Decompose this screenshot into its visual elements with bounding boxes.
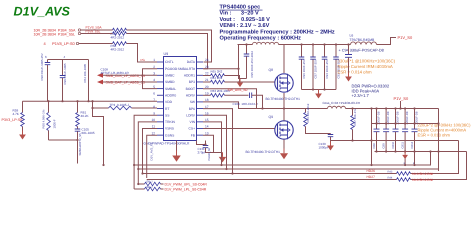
svg-text:TP3 0-1005-J: TP3 0-1005-J — [110, 103, 130, 107]
svg-text:BOOT: BOOT — [186, 87, 195, 91]
wire aux x103 — [93, 108, 104, 165]
svg-text:VENH : 2.1V ~ 3.6V: VENH : 2.1V ~ 3.6V — [220, 23, 270, 29]
wire row1 to R57 — [81, 29, 113, 31]
wire riser x438 — [438, 109, 440, 172]
ground pin13 — [222, 153, 224, 157]
svg-text:C93 10UF-25V: C93 10UF-25V — [325, 59, 329, 78]
wire rowA label — [161, 183, 164, 185]
svg-text:4 P1V8_LP-S0: 4 P1V8_LP-S0 — [44, 41, 76, 46]
capacitor C93 — [324, 45, 326, 58]
svg-text:P3V3_LP-S0: P3V3_LP-S0 — [2, 118, 23, 122]
wire divider tail — [77, 140, 79, 164]
resistor R58 — [113, 42, 127, 46]
wire divider bottom — [49, 139, 78, 141]
svg-text:DATA: DATA — [187, 60, 196, 64]
svg-text:7: 7 — [153, 98, 155, 102]
svg-text:SMBALERT#_S5: SMBALERT#_S5 — [78, 133, 82, 156]
svg-text:SMBAL: SMBAL — [165, 87, 176, 91]
wire pin10 bus2 — [138, 122, 157, 184]
capacitor C105 — [77, 127, 79, 130]
svg-text:R44: R44 — [388, 176, 393, 179]
svg-text:Vout : 0.925~18 V: Vout : 0.925~18 V — [220, 17, 271, 23]
svg-text:L6: L6 — [350, 34, 354, 38]
capacitor C131 — [205, 141, 207, 146]
net arrow SMB_DAT — [97, 80, 103, 85]
wire out gnd rail — [375, 151, 467, 153]
svg-text:4.7K: 4.7K — [13, 112, 20, 116]
svg-text:R60 4.99K-1%: R60 4.99K-1% — [42, 109, 46, 128]
svg-text:R65 2R2: R65 2R2 — [211, 69, 223, 73]
svg-text:40.2K: 40.2K — [81, 114, 90, 118]
svg-text:1005-F: 1005-F — [53, 119, 57, 128]
svg-text:D1V_AVS_FB: D1V_AVS_FB — [150, 142, 154, 160]
svg-text:C106 1R0-C104-J: C106 1R0-C104-J — [233, 102, 259, 106]
svg-text:HD27: HD27 — [367, 175, 376, 179]
svg-text:GSNS: GSNS — [165, 133, 175, 137]
svg-text:10-0.5K-J-DNI: 10-0.5K-J-DNI — [412, 178, 433, 182]
svg-text:B0-TP40400-TH2-DTH1: B0-TP40400-TH2-DTH1 — [266, 97, 301, 101]
capacitor C97 — [312, 45, 314, 58]
resistor R59 — [21, 113, 25, 127]
resistor rowA — [145, 182, 161, 186]
svg-text:5: 5 — [153, 85, 155, 89]
wire bus3 — [143, 141, 459, 174]
wire pin23 — [203, 68, 239, 70]
svg-text:24: 24 — [205, 58, 209, 62]
svg-text:C96 10UF-25V: C96 10UF-25V — [302, 59, 306, 78]
capacitor C94 bulk — [348, 45, 350, 55]
inductor FB1 — [253, 42, 279, 44]
inductor L6 — [351, 42, 377, 45]
wire R65b join — [225, 76, 240, 83]
wire FB rail — [331, 140, 459, 142]
wire pin17 — [203, 109, 233, 174]
svg-text:2: 2 — [153, 65, 155, 69]
svg-text:330uF*1 @100KHz=100(36C): 330uF*1 @100KHz=100(36C) — [338, 59, 396, 64]
wire bus1 — [134, 152, 430, 166]
svg-text:P1V_S0: P1V_S0 — [398, 35, 413, 40]
svg-text:+ C94 330uF-POSCAP-D8: + C94 330uF-POSCAP-D8 — [339, 49, 384, 53]
svg-text:6: 6 — [153, 91, 155, 95]
wire bank sense 1 — [404, 159, 406, 166]
resistor R66 — [304, 113, 308, 127]
wire bank sense 2 — [414, 152, 416, 166]
net arrow SMB_CLK — [97, 73, 103, 78]
ground below R59 — [22, 131, 24, 135]
svg-text:VDD: VDD — [165, 100, 173, 104]
resistor rowC — [397, 172, 411, 176]
wire bus4 — [147, 152, 467, 180]
svg-text:+2.3/+1.7: +2.3/+1.7 — [352, 93, 370, 98]
svg-text:TRKIN: TRKIN — [165, 120, 176, 124]
wire R67 bottom — [352, 130, 354, 141]
wire row3 to pin1 — [127, 44, 158, 63]
svg-text:SMBD: SMBD — [165, 80, 175, 84]
capacitor C130 — [330, 134, 332, 135]
svg-text:C810: C810 — [391, 141, 395, 148]
wire rowB — [134, 188, 144, 190]
wire pin16 — [203, 115, 227, 169]
svg-text:D1V_AVS: D1V_AVS — [14, 5, 71, 19]
svg-text:270pF: 270pF — [198, 151, 207, 155]
wire pin14 to Q9 gate — [203, 128, 278, 130]
svg-text:R66 2R2-2012: R66 2R2-2012 — [306, 103, 310, 122]
svg-text:8: 8 — [153, 105, 155, 109]
svg-text:C88: C88 — [372, 143, 376, 149]
svg-text:ESR = 0.014 ohm: ESR = 0.014 ohm — [338, 70, 372, 75]
wire L7 to out rail — [346, 108, 439, 110]
svg-text:1: 1 — [153, 58, 155, 62]
wire snubber — [305, 109, 307, 113]
capacitor C96 — [301, 45, 303, 58]
svg-text:SMBALRT#: SMBALRT# — [178, 67, 196, 71]
ground below U9 — [176, 151, 178, 156]
wire to R62 — [93, 101, 109, 108]
svg-text:TPS40400 spec: TPS40400 spec — [220, 5, 261, 11]
wire to R61 — [77, 101, 79, 112]
wire VIN riser — [239, 45, 247, 79]
svg-text:PGND_S0: PGND_S0 — [208, 147, 211, 160]
wire C106 to SW — [252, 95, 263, 108]
svg-text:C99 R1UF-1005: C99 R1UF-1005 — [63, 63, 67, 84]
svg-text:3: 3 — [153, 72, 155, 76]
svg-text:4R2-2012: 4R2-2012 — [111, 36, 125, 40]
wire pin21 gate — [203, 81, 211, 83]
wire R59 to gnd — [22, 127, 24, 131]
resistor rowB — [145, 187, 161, 191]
svg-text:R67 10K-1%: R67 10K-1% — [353, 109, 357, 126]
svg-text:LDRV: LDRV — [186, 113, 196, 117]
capacitor C95 — [246, 45, 248, 55]
wire SMB_CLK to pin3 — [103, 74, 157, 76]
svg-text:Coss_C=94 TPL2CB-03-CH: Coss_C=94 TPL2CB-03-CH — [323, 101, 361, 105]
svg-text:4R2-2012: 4R2-2012 — [111, 48, 125, 52]
svg-text:PGOOD: PGOOD — [165, 67, 178, 71]
wire pin9 bus1 — [134, 115, 157, 189]
resistor R56 — [113, 32, 127, 36]
wire Q8 source — [283, 93, 285, 109]
svg-text:Q9: Q9 — [269, 115, 274, 119]
svg-text:C89: C89 — [382, 143, 386, 149]
wire R62 to pin8 — [132, 107, 158, 109]
wire bus2 — [138, 168, 438, 170]
wire VIN rail mid — [279, 44, 351, 46]
wire pin2 stub — [143, 69, 158, 89]
wire row1 to pin24 — [127, 30, 212, 62]
svg-text:R64 10K-1005: R64 10K-1005 — [83, 63, 87, 82]
svg-text:B0-TP40400-TH2-DTH1: B0-TP40400-TH2-DTH1 — [246, 150, 281, 154]
wire rowA — [138, 183, 144, 185]
svg-text:VSNS: VSNS — [165, 127, 175, 131]
svg-text:4R7UF-LR-46R3-1R: 4R7UF-LR-46R3-1R — [101, 71, 130, 75]
wire input cap gnd rail — [302, 89, 337, 91]
ground input caps — [318, 90, 320, 94]
wire block to VDD rail — [88, 60, 90, 102]
wire Q8 drain — [283, 45, 285, 74]
svg-text:C811: C811 — [401, 142, 405, 149]
svg-text:C812: C812 — [410, 141, 414, 148]
wire R60 bottom — [48, 131, 50, 141]
wire pin20 SW — [203, 89, 257, 109]
resistor R64b — [211, 80, 225, 84]
resistor R61 — [76, 113, 80, 127]
wire to R60 — [48, 101, 50, 112]
svg-text:BP3: BP3 — [189, 80, 195, 84]
svg-text:D1V_PWM_UPL_S0-C04R: D1V_PWM_UPL_S0-C04R — [165, 183, 208, 187]
wire U9 pad gnd — [176, 141, 178, 151]
wire SMB_DAT to pin4 — [103, 81, 157, 83]
svg-text:681-1005: 681-1005 — [82, 131, 95, 135]
wire row3 to R58 — [79, 43, 113, 45]
ground C95 loop — [239, 79, 241, 83]
svg-text:ESR = 0.018 ohm: ESR = 0.018 ohm — [418, 133, 451, 138]
svg-text:R43: R43 — [388, 170, 393, 173]
wire FB sense — [371, 109, 373, 166]
svg-text:Vin : 3~20 V: Vin : 3~20 V — [220, 10, 259, 17]
svg-text:CS+: CS+ — [188, 127, 195, 131]
svg-text:PG: PG — [141, 58, 146, 62]
svg-text:20: 20 — [205, 85, 209, 89]
svg-text:C98 R1UF-1005-25V: C98 R1UF-1005-25V — [40, 53, 44, 80]
wire R66 to C130 — [306, 127, 331, 134]
wire out sense rail — [372, 123, 439, 125]
wire FB R — [352, 109, 354, 116]
svg-text:SMBC: SMBC — [165, 74, 175, 78]
ground Q9 — [283, 149, 285, 154]
capacitor C99 — [62, 60, 64, 76]
svg-text:D1V_PWM_LPL_S0-C04R: D1V_PWM_LPL_S0-C04R — [165, 188, 207, 192]
wire VDD rail — [23, 100, 158, 102]
svg-text:ADDR1: ADDR1 — [184, 74, 195, 78]
ground C130 — [330, 142, 332, 146]
wire P1V stub — [400, 101, 402, 109]
transistor Q9 — [275, 121, 293, 139]
svg-text:1000pF: 1000pF — [319, 146, 329, 150]
svg-text:C92 10UF-25V: C92 10UF-25V — [337, 59, 341, 78]
wire pin11 bus3 — [143, 129, 158, 175]
capacitor C92 — [335, 45, 337, 58]
wire top block — [48, 59, 89, 61]
ground output caps — [404, 152, 406, 155]
resistor R62 — [109, 106, 132, 110]
svg-text:ADDR0: ADDR0 — [165, 93, 176, 97]
wire row2b — [127, 34, 208, 69]
svg-text:P1V_S0: P1V_S0 — [394, 96, 409, 101]
svg-text:10-0.5K-J-DNI: 10-0.5K-J-DNI — [412, 172, 433, 176]
svg-text:Q8: Q8 — [269, 68, 274, 72]
wire R64b to gate — [225, 81, 278, 83]
svg-text:4: 4 — [153, 78, 155, 82]
svg-text:0R-J: 0R-J — [147, 180, 154, 184]
wire pin15 — [203, 122, 222, 165]
capacitor bank output — [376, 109, 378, 130]
resistor R67 — [351, 116, 355, 130]
capacitor C98 — [47, 60, 49, 63]
svg-text:VIN: VIN — [190, 120, 196, 124]
svg-text:C95 10UF-25V-2012: C95 10UF-25V-2012 — [250, 51, 254, 78]
resistor R63 — [211, 94, 225, 98]
resistor R65b — [211, 74, 225, 78]
svg-text:U9: U9 — [164, 52, 169, 56]
svg-text:10R_2B 3B34 P1B4_S5L: 10R_2B 3B34 P1B4_S5L — [34, 32, 76, 36]
resistor R60 — [47, 113, 51, 131]
resistor rowD — [397, 178, 411, 182]
wire to R59 — [22, 101, 24, 112]
wire rowB label — [161, 188, 164, 190]
svg-text:CNTL: CNTL — [165, 60, 174, 64]
inductor L7 — [328, 106, 346, 108]
wire pin18 SW rail — [203, 102, 328, 109]
wire L6 to P1V — [377, 38, 397, 45]
resistor R57 — [113, 28, 127, 32]
wire pin19 snubber — [203, 94, 211, 96]
svg-text:C97 10UF-25V: C97 10UF-25V — [314, 59, 318, 78]
svg-text:SW: SW — [190, 100, 196, 104]
svg-text:22: 22 — [205, 72, 209, 76]
wire R63 to C106 — [225, 94, 249, 96]
svg-text:SW_AVS_S0: SW_AVS_S0 — [228, 88, 248, 92]
svg-text:BP6: BP6 — [189, 107, 195, 111]
wire Q9 source — [283, 140, 285, 149]
svg-text:Programmable Frequency : 200KH: Programmable Frequency : 200KHz ~ 2MHz — [220, 28, 335, 35]
wire VIN rail left — [238, 44, 253, 46]
svg-text:HDRV: HDRV — [186, 93, 196, 97]
wire Q9 drain — [283, 109, 285, 121]
wire pin22 — [203, 75, 211, 77]
capacitor C106 — [250, 93, 252, 99]
op-amp U9 TPS40400 — [164, 57, 197, 141]
svg-text:TPA7B6-R45MB: TPA7B6-R45MB — [350, 38, 376, 42]
wire pin13 chain — [203, 135, 223, 152]
svg-text:Operating Frequency : 600KHz: Operating Frequency : 600KHz — [220, 35, 302, 42]
transistor Q8 — [275, 74, 293, 92]
wire pin12 bus4 — [147, 135, 157, 178]
wire row2a — [81, 33, 113, 35]
ground C94 — [348, 73, 350, 77]
svg-text:RT: RT — [165, 107, 169, 111]
svg-text:HD26: HD26 — [367, 169, 376, 173]
svg-text:Ripple Current IRM=4030mA: Ripple Current IRM=4030mA — [338, 64, 393, 69]
svg-text:0R-J: 0R-J — [147, 185, 154, 189]
